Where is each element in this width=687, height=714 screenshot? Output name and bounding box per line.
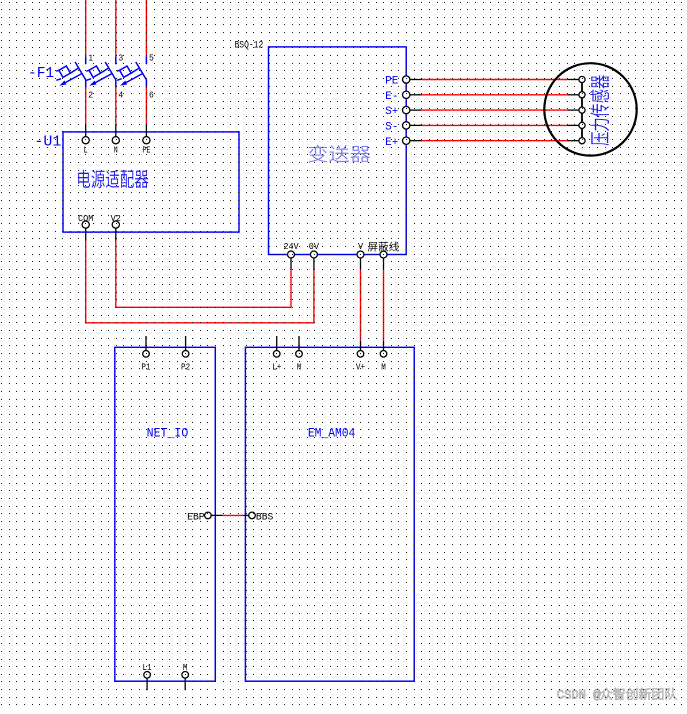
svg-text:BBS: BBS (256, 511, 274, 522)
svg-text:P2: P2 (181, 362, 190, 373)
wire S- to sensor (410, 124, 579, 126)
sensor terminal S+ (579, 107, 585, 113)
pin number 5 (149, 53, 154, 64)
transmitter box (269, 47, 407, 255)
svg-text:CSDN @: CSDN @ (557, 688, 601, 702)
svg-text:3: 3 (118, 53, 123, 64)
wire PE incoming (145, 0, 147, 56)
transmitter pin E+ (385, 137, 410, 149)
module EM_AM04 box (245, 347, 414, 681)
NET_IO pin P1 (141, 336, 150, 373)
power adapter U1 box (63, 132, 239, 232)
EM_AM04 pin M (296, 336, 303, 373)
circuit breaker F1 designator label (28, 66, 54, 82)
svg-text:EBP: EBP (187, 511, 205, 522)
wire N phase incoming (115, 0, 117, 56)
svg-text:-F1: -F1 (28, 66, 54, 82)
sensor terminal bus line (581, 80, 583, 141)
svg-text:1: 1 (88, 53, 93, 64)
circuit breaker F1 pole 2 (86, 56, 116, 88)
EM_AM04 pin L+ (272, 336, 281, 373)
transmitter label 变送器 (308, 145, 370, 163)
EM_AM04 pin V+ (356, 341, 365, 373)
transmitter pin 屏蔽线 (shield) (368, 242, 399, 271)
NET_IO pin M (182, 662, 189, 690)
NET_IO label (147, 426, 189, 441)
wire breaker pole 1 to adapter (85, 88, 87, 124)
sensor terminal E+ (579, 138, 585, 144)
wire V to V+ (360, 270, 362, 341)
pin number 1 (88, 53, 93, 64)
transmitter pin S- (385, 122, 410, 134)
transmitter pin PE (385, 76, 410, 88)
svg-text:4: 4 (118, 90, 123, 101)
U1 label 电源适配器 (78, 170, 148, 188)
NET_IO pin EBP (187, 511, 223, 522)
wire V2 to 24V (116, 241, 291, 308)
transmitter BSQ-12 tag (235, 39, 264, 51)
wire E- to sensor (410, 94, 579, 96)
wire L1 phase incoming (85, 0, 87, 56)
svg-text:M: M (381, 362, 386, 373)
EM_AM04 pin BBS (244, 511, 274, 522)
circuit breaker F1 pole 1 (56, 56, 85, 88)
pin number 2 (88, 90, 93, 101)
sensor terminal S- (579, 122, 585, 128)
transmitter pin E- (385, 91, 410, 103)
module NET_IO box (115, 347, 216, 681)
svg-text:2: 2 (88, 90, 93, 101)
pressure sensor circle (544, 63, 636, 155)
svg-text:V+: V+ (356, 362, 365, 373)
sensor terminal E- (579, 92, 585, 98)
power adapter U1 designator (34, 133, 61, 150)
watermark CSDN (557, 688, 601, 702)
transmitter pin 0V (309, 242, 320, 270)
svg-text:EM_AM04: EM_AM04 (308, 426, 355, 441)
wire S+ to sensor (410, 109, 579, 111)
svg-text:N: N (114, 146, 118, 156)
wire EBP to BBS (223, 514, 244, 516)
svg-text:PE: PE (385, 76, 399, 88)
U1 pin N (112, 124, 119, 155)
wire COM to 0V (86, 241, 314, 323)
svg-text:P1: P1 (141, 362, 150, 373)
NET_IO pin P2 (181, 336, 190, 373)
U1 pin COM (78, 214, 93, 241)
pin number 6 (149, 90, 154, 101)
wire breaker pole 3 to adapter (145, 88, 147, 124)
wire breaker pole 2 to adapter (115, 88, 117, 124)
circuit breaker F1 pole 3 (117, 56, 146, 88)
svg-text:M: M (297, 362, 302, 373)
svg-text:5: 5 (149, 53, 154, 64)
U1 pin L (82, 124, 89, 155)
EM_AM04 label (308, 426, 355, 441)
svg-text:NET_IO: NET_IO (147, 426, 189, 441)
transmitter pin V (357, 242, 364, 270)
transmitter pin S+ (385, 106, 410, 118)
svg-text:6: 6 (149, 90, 154, 101)
U1 pin V2 (111, 214, 121, 241)
sensor terminal PE (579, 76, 585, 82)
EM_AM04 pin M (380, 341, 387, 373)
wire PE to sensor (410, 79, 579, 81)
sensor label 压力传感器 (590, 75, 609, 145)
pin number 4 (118, 90, 123, 101)
wire shield to M (383, 270, 385, 341)
watermark 众智创新团队 (600, 688, 676, 700)
NET_IO pin L1 (143, 662, 152, 690)
svg-text:L+: L+ (272, 362, 281, 373)
U1 pin PE (142, 124, 150, 155)
pin number 3 (118, 53, 123, 64)
wire E+ to sensor (410, 140, 579, 142)
transmitter pin 24V (283, 242, 299, 270)
